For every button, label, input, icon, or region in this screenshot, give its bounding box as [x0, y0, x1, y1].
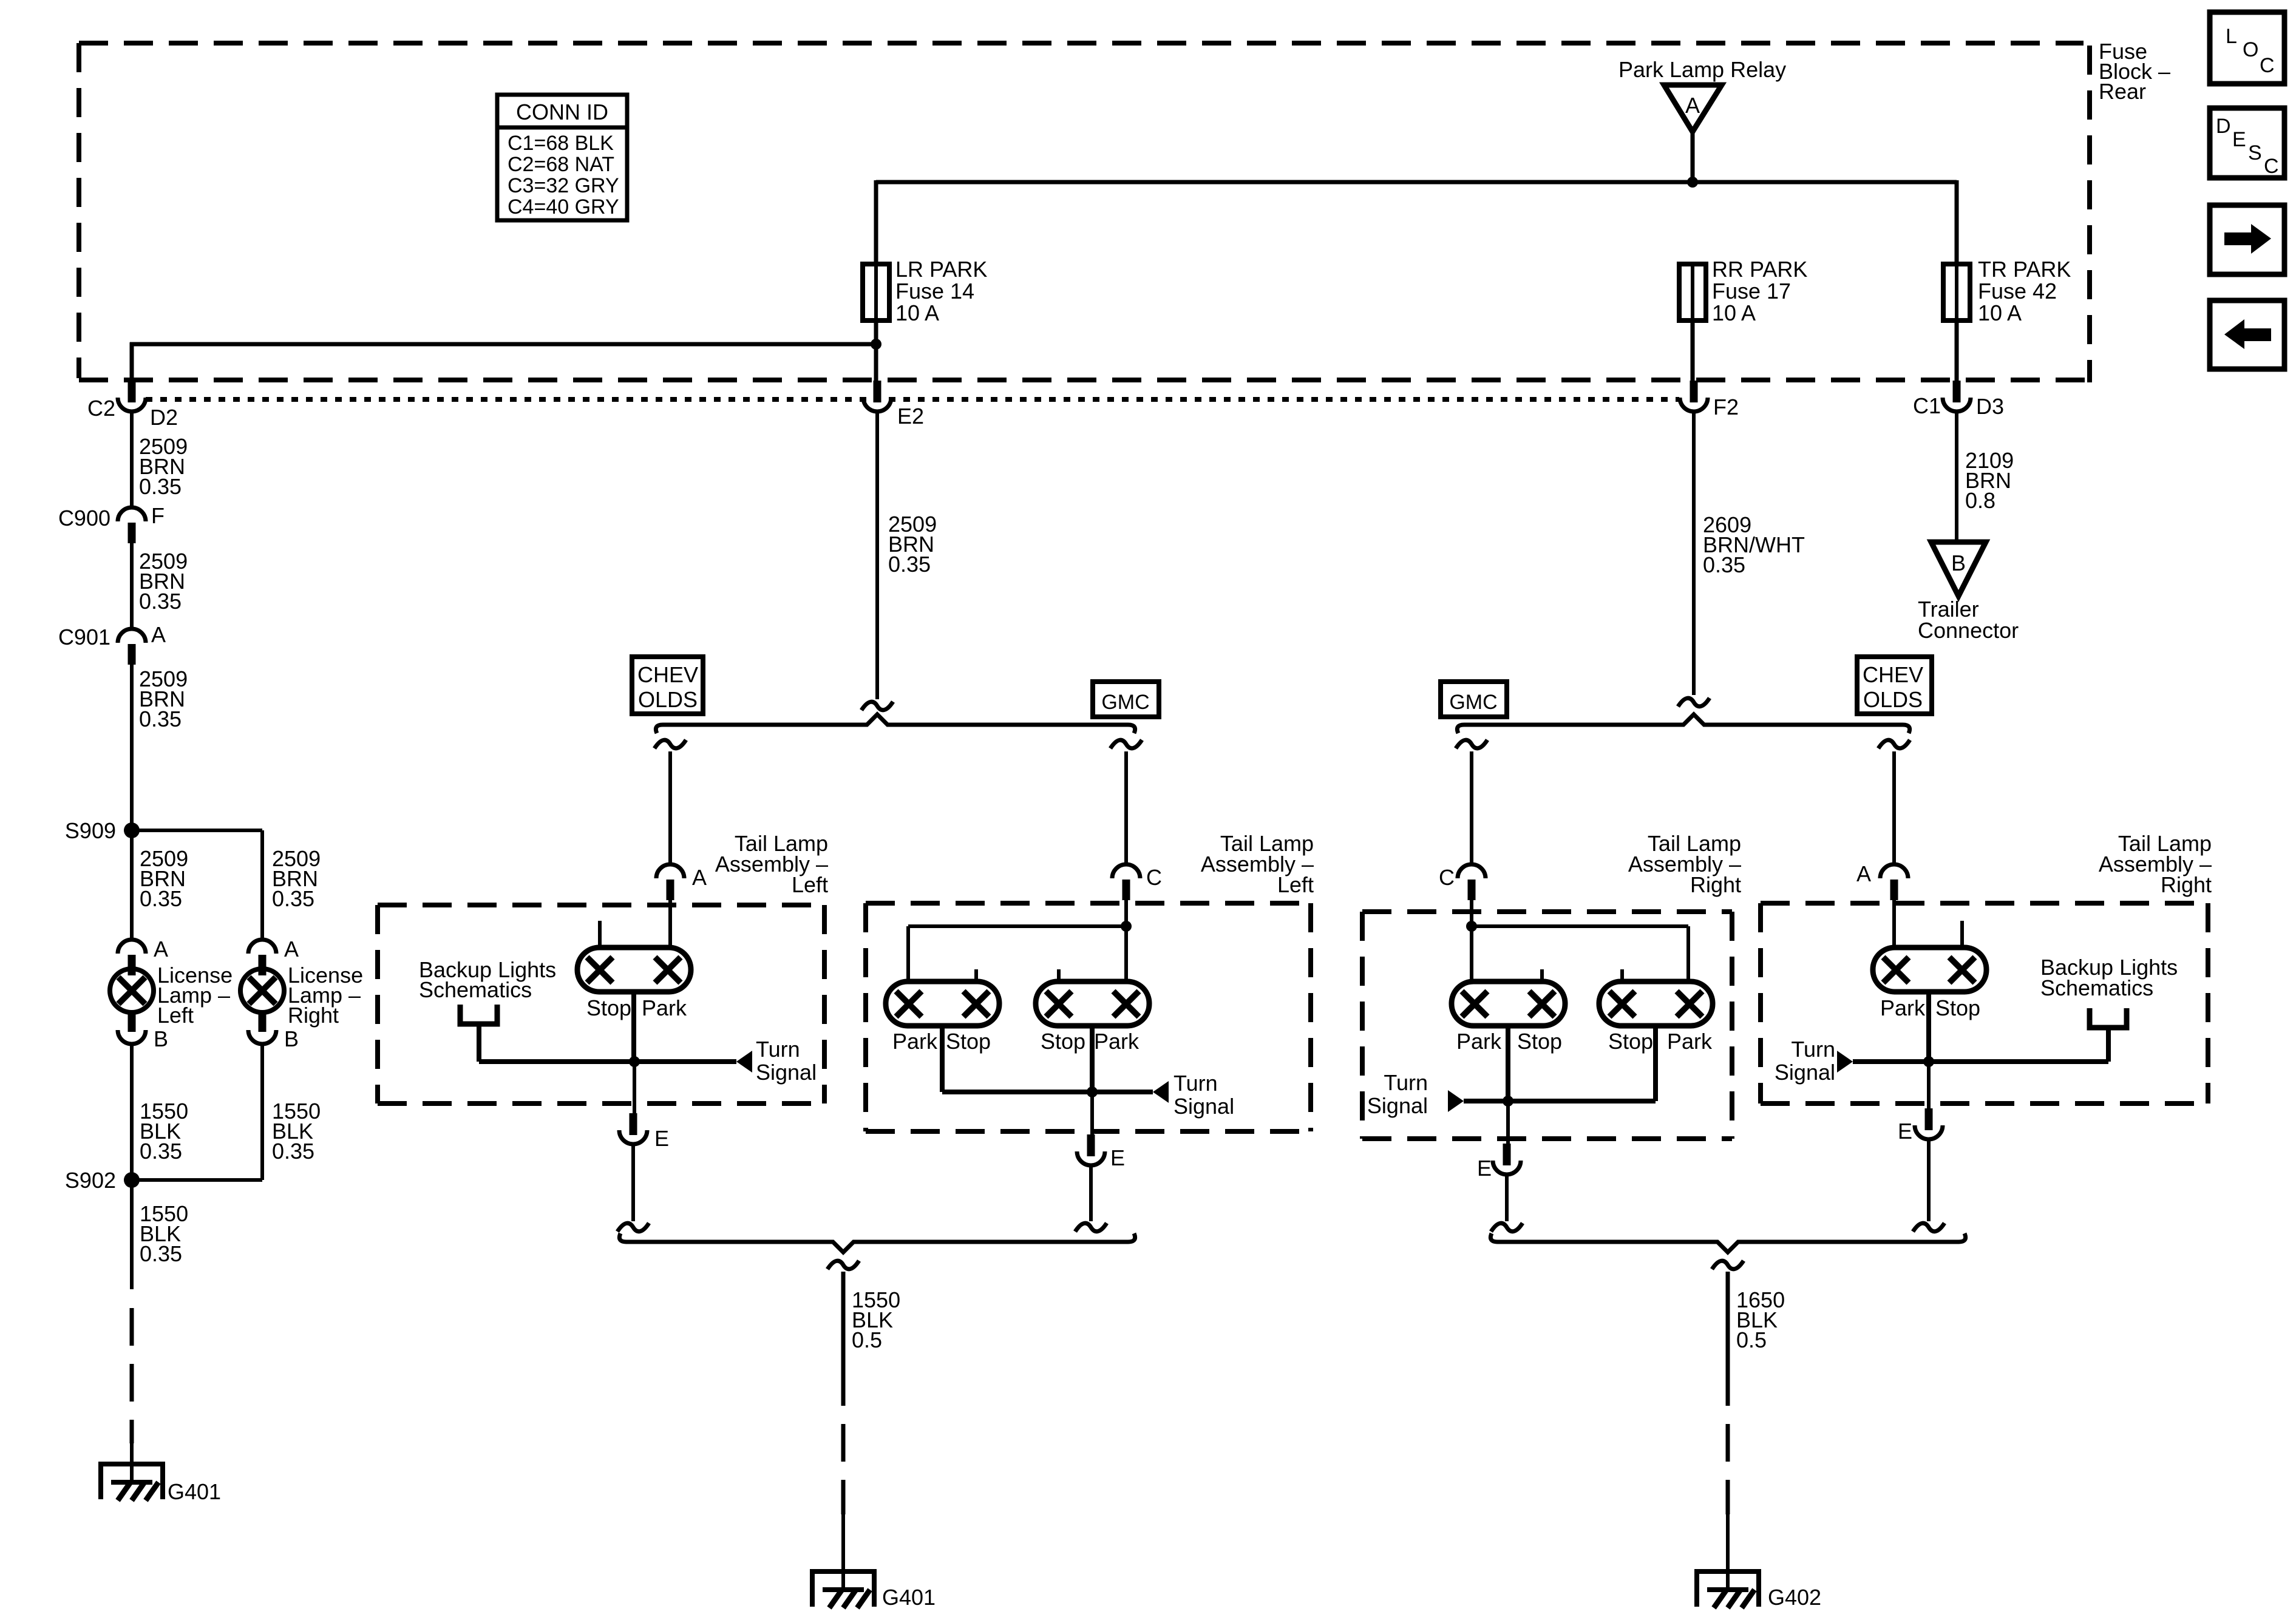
- svg-text:A: A: [1685, 93, 1700, 118]
- wire C901 to S909: [130, 661, 134, 830]
- wire E down to brace (box4): [1927, 1139, 1931, 1221]
- svg-text:Stop: Stop: [1935, 995, 1980, 1020]
- splice S902: [65, 1168, 140, 1193]
- svg-text:0.5: 0.5: [1736, 1327, 1767, 1352]
- fuse block - rear dashed outline top edge: [79, 41, 2084, 46]
- bulb park/stop left (box3): [1452, 981, 1565, 1026]
- svg-text:10 A: 10 A: [895, 300, 939, 325]
- svg-text:A: A: [692, 865, 707, 890]
- wire brace to ground dashed (right): [1726, 1368, 1730, 1514]
- svg-text:G402: G402: [1768, 1585, 1821, 1610]
- wire arrow to junction (box4): [1853, 1059, 1929, 1064]
- wire S902 to ground solid: [130, 1180, 134, 1289]
- wire right bulb stem (box3): [1508, 1026, 1656, 1101]
- park lamp relay label: [1618, 57, 1786, 82]
- wire junction down to E (box3): [1506, 1101, 1510, 1146]
- svg-text:0.5: 0.5: [852, 1327, 882, 1352]
- break symbol below E box1: [617, 1223, 649, 1232]
- junction dot at relay bus: [1687, 177, 1698, 188]
- wire label 2509 BRN 0.35 (right lamp): [272, 846, 321, 911]
- fuse RR PARK Fuse 17: [1679, 257, 1807, 325]
- break symbol below E box4: [1913, 1223, 1944, 1232]
- svg-text:C2: C2: [87, 396, 115, 421]
- svg-text:OLDS: OLDS: [1863, 687, 1923, 712]
- wire junction down to E (box1): [633, 1062, 636, 1116]
- svg-text:Turn: Turn: [756, 1037, 800, 1062]
- svg-text:A: A: [1856, 861, 1871, 886]
- tail lamp assembly left CHEV dashed box: [378, 905, 824, 1103]
- connector E (box4): [1898, 1108, 1943, 1144]
- label Stop left bulb (box3): [1517, 1029, 1562, 1054]
- wire S902 branch horizontal: [132, 1178, 262, 1182]
- turn signal arrow (box4): [1837, 1051, 1853, 1073]
- svg-text:S902: S902: [65, 1168, 116, 1193]
- bulb park/stop left (box2): [886, 981, 999, 1026]
- wire feed horizontal (box2): [908, 924, 1126, 928]
- tail lamp assembly left GMC dashed box: [866, 903, 1311, 1131]
- wire label 2109 BRN 0.8: [1965, 448, 2014, 513]
- bus wire horizontal: [876, 180, 1957, 185]
- svg-text:C2=68 NAT: C2=68 NAT: [508, 153, 614, 176]
- CONN ID table box: [497, 95, 627, 220]
- svg-text:Turn: Turn: [1173, 1071, 1218, 1096]
- wire left bulb stem (box2): [942, 1026, 1092, 1092]
- svg-text:Schematics: Schematics: [419, 977, 532, 1002]
- wire label 2509 BRN 0.35 (E2): [888, 512, 937, 577]
- wire connector C into box2: [1124, 900, 1128, 926]
- label Stop left bulb (box2): [946, 1029, 991, 1054]
- connector A (box4): [1856, 861, 1908, 900]
- svg-text:Park: Park: [892, 1029, 938, 1054]
- bulb stop/park (box1): [577, 947, 691, 992]
- wire label 2509 BRN 0.35 (C901-S909): [139, 666, 188, 731]
- wire connector A into box1: [668, 900, 672, 947]
- wire S909 to left license lamp: [130, 830, 134, 941]
- svg-text:B: B: [1951, 551, 1966, 575]
- stub above stop filament right bulb (box3): [1620, 969, 1624, 981]
- label tail lamp assembly left (box1): [715, 831, 828, 897]
- stub above stop filament (box1): [598, 921, 602, 947]
- svg-text:D3: D3: [1976, 394, 2004, 419]
- svg-text:Signal: Signal: [756, 1060, 817, 1085]
- svg-text:Schematics: Schematics: [2040, 975, 2153, 1000]
- svg-text:Fuse 42: Fuse 42: [1978, 279, 2057, 303]
- vehicle tag CHEV OLDS (right): [1857, 657, 1932, 714]
- license lamp left label: [157, 963, 233, 1028]
- options brace left (top): [656, 714, 1135, 733]
- wire junction to turn signal arrow (box1): [634, 1059, 736, 1064]
- wire right lamp B to branch: [260, 1044, 264, 1180]
- wire bulb stem to junction (box1): [631, 992, 636, 1062]
- break symbol below E box2: [1075, 1223, 1107, 1232]
- connector E (box1): [619, 1113, 669, 1151]
- wire F2 down: [1692, 412, 1696, 695]
- svg-text:Rear: Rear: [2099, 79, 2146, 104]
- wire brace to ground dashed (left): [841, 1368, 846, 1514]
- svg-text:Left: Left: [1277, 872, 1314, 897]
- tail lamp assembly right CHEV dashed box: [1761, 903, 2208, 1103]
- wire arrow to junction (box3): [1464, 1099, 1508, 1103]
- DESC reference box: [2210, 108, 2284, 178]
- wire label 1550 BLK 0.35 (left): [140, 1099, 188, 1164]
- wire junction down to E (box4): [1927, 1062, 1931, 1111]
- bulb stop/park right (box3): [1599, 981, 1713, 1026]
- svg-text:Fuse 14: Fuse 14: [895, 279, 974, 303]
- connector A above license lamp right: [248, 937, 299, 975]
- fuse LR PARK Fuse 14: [863, 257, 987, 325]
- label Stop (box1): [586, 995, 631, 1020]
- svg-text:C1=68 BLK: C1=68 BLK: [508, 132, 614, 155]
- wire relay to bus: [1691, 132, 1695, 182]
- break symbol above left brace: [861, 702, 893, 710]
- svg-text:C: C: [1439, 865, 1455, 890]
- wire label 1550 BLK 0.35 (right): [272, 1099, 321, 1164]
- splice S909: [65, 818, 140, 843]
- svg-text:F: F: [151, 503, 165, 528]
- junction dot feed (box2): [1121, 921, 1132, 932]
- wire E down to brace (box2): [1089, 1165, 1093, 1221]
- svg-text:E: E: [1110, 1145, 1125, 1170]
- label tail lamp assembly right (box4): [2099, 831, 2212, 897]
- connector E2: [863, 381, 924, 429]
- break symbol below E box3: [1491, 1223, 1523, 1232]
- svg-text:C: C: [2264, 155, 2279, 178]
- LOC reference box: [2210, 12, 2284, 84]
- svg-text:B: B: [284, 1026, 299, 1051]
- svg-text:Signal: Signal: [1173, 1094, 1234, 1119]
- stub above stop filament left bulb (box3): [1540, 969, 1544, 981]
- svg-text:Signal: Signal: [1367, 1093, 1428, 1118]
- fuse block - rear dashed outline left edge: [76, 43, 81, 378]
- connector C901 / A: [58, 622, 166, 665]
- svg-text:GMC: GMC: [1101, 691, 1149, 714]
- connector C1/D3: [1913, 381, 2004, 419]
- wire E down to brace (box3): [1505, 1175, 1509, 1221]
- wire E2 down: [875, 412, 879, 699]
- wire feed down to park filament right bulb (box2): [1124, 926, 1128, 981]
- wire label 1550 BLK 0.5: [852, 1287, 900, 1352]
- ground G401 middle: [810, 1570, 936, 1610]
- wire connector A into box4: [1892, 900, 1896, 947]
- fuse TR PARK Fuse 42: [1943, 257, 2071, 325]
- wire right bulb stem (box2): [1090, 1026, 1095, 1092]
- wire left lamp B to S902: [130, 1044, 134, 1180]
- turn signal arrow (box1): [736, 1051, 752, 1073]
- label Park (box1): [642, 995, 687, 1020]
- svg-text:0.35: 0.35: [140, 1139, 182, 1164]
- wire bus down to TR PARK fuse: [1955, 180, 1959, 264]
- svg-text:0.8: 0.8: [1965, 488, 1995, 513]
- label Stop right bulb (box2): [1041, 1029, 1085, 1054]
- svg-text:B: B: [154, 1026, 168, 1051]
- svg-text:Right: Right: [2161, 872, 2212, 897]
- wire junction left to C2 drop: [130, 342, 876, 347]
- break symbol below right brace: [1712, 1261, 1744, 1269]
- wire branch to right license lamp: [260, 830, 264, 941]
- svg-text:C: C: [2260, 54, 2275, 77]
- svg-text:0.35: 0.35: [140, 886, 182, 911]
- wire feed down to park filament right bulb (box3): [1686, 926, 1690, 981]
- wire bus down to LR PARK fuse: [874, 180, 878, 264]
- svg-text:0.35: 0.35: [140, 1241, 182, 1266]
- wire label 2509 BRN 0.35 (C2-C900): [139, 434, 188, 499]
- svg-text:LR PARK: LR PARK: [895, 257, 987, 282]
- connector E (box2): [1077, 1134, 1125, 1170]
- turn signal arrow (box3): [1448, 1090, 1464, 1112]
- svg-text:A: A: [154, 937, 168, 961]
- svg-text:RR PARK: RR PARK: [1712, 257, 1807, 282]
- wire E down to brace (box1): [631, 1144, 635, 1221]
- svg-text:0.35: 0.35: [1703, 552, 1745, 577]
- break symbol above GMC branch (right): [1456, 740, 1487, 748]
- wire label 2509 BRN 0.35 (left lamp): [140, 846, 188, 911]
- svg-text:GMC: GMC: [1449, 691, 1497, 714]
- svg-text:Right: Right: [288, 1003, 339, 1028]
- svg-text:D: D: [2216, 115, 2231, 138]
- svg-text:C3=32 GRY: C3=32 GRY: [508, 174, 619, 197]
- svg-text:0.35: 0.35: [139, 474, 182, 499]
- stub above stop filament left bulb (box2): [974, 969, 978, 981]
- label Park right bulb (box3): [1667, 1029, 1713, 1054]
- junction dot (box4): [1923, 1056, 1934, 1067]
- label Fuse Block - Rear: [2099, 39, 2170, 104]
- junction dot (box2): [1087, 1086, 1098, 1097]
- label trailer connector: [1918, 597, 2019, 643]
- label tail lamp assembly right (box3): [1628, 831, 1741, 897]
- wire label 1650 BLK 0.5: [1736, 1287, 1785, 1352]
- ground G402: [1694, 1570, 1821, 1610]
- label turn signal (box1): [756, 1037, 817, 1085]
- backup lights bracket (box1): [460, 1005, 497, 1024]
- trailer connector triangle B: [1931, 542, 1986, 596]
- break symbol above GMC branch: [1110, 740, 1142, 748]
- license lamp right label: [288, 963, 363, 1028]
- svg-text:Stop: Stop: [1608, 1029, 1653, 1054]
- connector C (box2): [1112, 864, 1162, 900]
- svg-text:O: O: [2243, 38, 2258, 61]
- wire junction down to E (box2): [1090, 1092, 1094, 1137]
- svg-text:A: A: [151, 622, 166, 647]
- junction dot feed (box3): [1466, 921, 1477, 932]
- svg-text:Fuse 17: Fuse 17: [1712, 279, 1791, 303]
- wire S902 to ground dashed: [130, 1308, 134, 1443]
- merge brace left (bottom): [619, 1233, 1135, 1252]
- turn signal arrow (box2): [1153, 1081, 1169, 1103]
- svg-text:C901: C901: [58, 625, 110, 649]
- connector C2/D2: [87, 381, 178, 430]
- vehicle tag GMC (left): [1093, 682, 1159, 717]
- wire label 2509 BRN 0.35 (C900-C901): [139, 549, 188, 614]
- connector B below license lamp left: [118, 1011, 168, 1051]
- wire brace to connector C (box3): [1470, 751, 1473, 864]
- wire connector C into box3: [1470, 900, 1473, 926]
- svg-text:10 A: 10 A: [1978, 300, 2022, 325]
- license lamp right bulb: [240, 968, 284, 1012]
- label turn signal (box4): [1775, 1037, 1835, 1085]
- svg-text:C900: C900: [58, 506, 110, 531]
- svg-text:C: C: [1146, 865, 1162, 890]
- svg-text:Stop: Stop: [586, 995, 631, 1020]
- svg-text:Connector: Connector: [1918, 618, 2019, 643]
- connector A above license lamp left: [118, 937, 168, 975]
- wire brace to connector C (box2): [1124, 751, 1128, 864]
- svg-text:Park: Park: [1456, 1029, 1502, 1054]
- wire C900 to C901: [130, 542, 134, 630]
- wire backup bracket to junction (box1): [479, 1024, 634, 1062]
- wire feed horizontal (box3): [1472, 924, 1688, 928]
- wire S909 branch horizontal: [132, 829, 262, 832]
- label turn signal (box3): [1367, 1070, 1428, 1118]
- label tail lamp assembly left (box2): [1201, 831, 1314, 897]
- svg-text:0.35: 0.35: [272, 1139, 314, 1164]
- junction dot below LR fuse: [871, 339, 881, 350]
- wire junction to turn signal arrow (box2): [1092, 1090, 1153, 1094]
- svg-text:Left: Left: [157, 1003, 194, 1028]
- wire brace to ground solid (right): [1726, 1272, 1730, 1368]
- wire into ground G401 middle: [841, 1514, 845, 1590]
- arrow right reference box: [2210, 205, 2284, 274]
- svg-text:F2: F2: [1713, 395, 1739, 419]
- svg-text:10 A: 10 A: [1712, 300, 1756, 325]
- merge brace right (bottom): [1490, 1233, 1965, 1252]
- backup lights bracket (box4): [2090, 1008, 2127, 1028]
- junction dot (box3): [1503, 1096, 1513, 1107]
- label Stop right bulb (box3): [1608, 1029, 1653, 1054]
- connector B below license lamp right: [248, 1011, 299, 1051]
- svg-text:Stop: Stop: [1041, 1029, 1085, 1054]
- wire TR fuse to C1: [1955, 320, 1959, 382]
- fuse block - rear dashed outline bottom edge: [79, 378, 2090, 382]
- wire bulb stem to junction (box4): [1926, 992, 1931, 1062]
- wire brace to connector A (box1): [668, 751, 672, 864]
- ground G401 left: [98, 1462, 221, 1504]
- label Stop (box4): [1935, 995, 1980, 1020]
- svg-text:E: E: [1898, 1119, 1912, 1144]
- svg-text:Park Lamp Relay: Park Lamp Relay: [1618, 57, 1786, 82]
- label Park left bulb (box2): [892, 1029, 938, 1054]
- wire into ground G401 left: [130, 1439, 134, 1482]
- connector A (box1): [656, 864, 707, 900]
- svg-text:Park: Park: [642, 995, 687, 1020]
- svg-text:G401: G401: [168, 1479, 221, 1504]
- label Park left bulb (box3): [1456, 1029, 1502, 1054]
- svg-text:Signal: Signal: [1775, 1060, 1835, 1085]
- svg-text:0.35: 0.35: [139, 707, 182, 731]
- label backup lights schematics (box1): [419, 957, 556, 1002]
- label backup lights schematics (box4): [2040, 955, 2178, 1000]
- svg-text:OLDS: OLDS: [638, 687, 698, 712]
- wire drop to connector C2: [130, 342, 134, 382]
- connector E (box3): [1477, 1144, 1521, 1181]
- connector C900 / F: [58, 503, 165, 543]
- svg-text:S: S: [2248, 141, 2262, 164]
- wire brace to connector A (box4): [1892, 751, 1896, 864]
- fuse block - rear dashed outline right edge: [2087, 46, 2092, 382]
- license lamp left bulb: [110, 968, 154, 1012]
- svg-text:CONN ID: CONN ID: [516, 100, 608, 124]
- junction dot (box1): [629, 1056, 640, 1067]
- label Park right bulb (box2): [1094, 1029, 1140, 1054]
- wire LR fuse junction to E2: [874, 344, 878, 382]
- break symbol above CHEV branch (right): [1878, 740, 1910, 748]
- wire left bulb stem (box3): [1506, 1026, 1510, 1101]
- svg-text:G401: G401: [882, 1585, 936, 1610]
- wire brace to ground solid (left): [841, 1272, 846, 1368]
- stub above stop filament right bulb (box2): [1057, 969, 1061, 981]
- break symbol above right brace: [1678, 698, 1710, 707]
- svg-text:C4=40 GRY: C4=40 GRY: [508, 195, 619, 219]
- wire backup bracket to junction (box4): [1929, 1028, 2108, 1062]
- svg-text:D2: D2: [150, 405, 178, 430]
- wire label 2609 BRN/WHT 0.35 (F2): [1703, 512, 1805, 577]
- vehicle tag CHEV OLDS (left): [632, 657, 703, 714]
- svg-text:CHEV: CHEV: [1863, 662, 1923, 687]
- svg-text:Park: Park: [1667, 1029, 1713, 1054]
- options brace right (top): [1457, 714, 1909, 733]
- svg-text:E2: E2: [897, 404, 924, 429]
- wire LR fuse to junction: [874, 320, 878, 345]
- svg-text:E: E: [654, 1126, 669, 1151]
- tail lamp assembly right GMC dashed box: [1362, 912, 1732, 1139]
- wire C1 to trailer connector B: [1955, 412, 1958, 543]
- svg-text:E: E: [2232, 128, 2246, 151]
- arrow left reference box: [2210, 300, 2284, 369]
- connector F2: [1680, 381, 1739, 419]
- svg-text:TR PARK: TR PARK: [1978, 257, 2071, 282]
- svg-text:Park: Park: [1094, 1029, 1140, 1054]
- svg-text:CHEV: CHEV: [637, 662, 698, 687]
- svg-text:Stop: Stop: [1517, 1029, 1562, 1054]
- svg-text:Stop: Stop: [946, 1029, 991, 1054]
- svg-text:Left: Left: [792, 872, 828, 897]
- label turn signal (box2): [1173, 1071, 1234, 1119]
- svg-text:0.35: 0.35: [139, 589, 182, 614]
- dotted harness line: [146, 397, 1679, 402]
- svg-text:L: L: [2226, 25, 2237, 48]
- svg-text:Park: Park: [1880, 995, 1926, 1020]
- connector C (box3): [1439, 864, 1486, 900]
- wire RR fuse to F2: [1691, 320, 1695, 382]
- vehicle tag GMC (right): [1441, 682, 1507, 717]
- svg-text:E: E: [1477, 1156, 1492, 1181]
- svg-text:Turn: Turn: [1791, 1037, 1835, 1062]
- wire into ground G402: [1726, 1514, 1730, 1590]
- stub above stop filament (box4): [1960, 921, 1964, 947]
- wire C2 to C900: [130, 412, 134, 509]
- label Park (box4): [1880, 995, 1926, 1020]
- svg-text:Turn: Turn: [1384, 1070, 1428, 1095]
- svg-text:A: A: [284, 937, 299, 961]
- break symbol above CHEV branch: [654, 740, 686, 748]
- svg-text:C1: C1: [1913, 393, 1941, 418]
- wire feed down to park filament left bulb (box2): [906, 926, 910, 981]
- bulb park/stop (box4): [1873, 947, 1986, 992]
- wire feed down to park filament left bulb (box3): [1470, 926, 1473, 981]
- park lamp relay triangle A: [1664, 85, 1722, 132]
- wire label 1550 BLK 0.35 (below S902): [140, 1201, 188, 1266]
- svg-text:Right: Right: [1690, 872, 1741, 897]
- svg-text:0.35: 0.35: [272, 886, 314, 911]
- bulb stop/park right (box2): [1036, 981, 1149, 1026]
- break symbol below left brace: [827, 1261, 859, 1269]
- svg-text:S909: S909: [65, 818, 116, 843]
- svg-text:0.35: 0.35: [888, 552, 931, 577]
